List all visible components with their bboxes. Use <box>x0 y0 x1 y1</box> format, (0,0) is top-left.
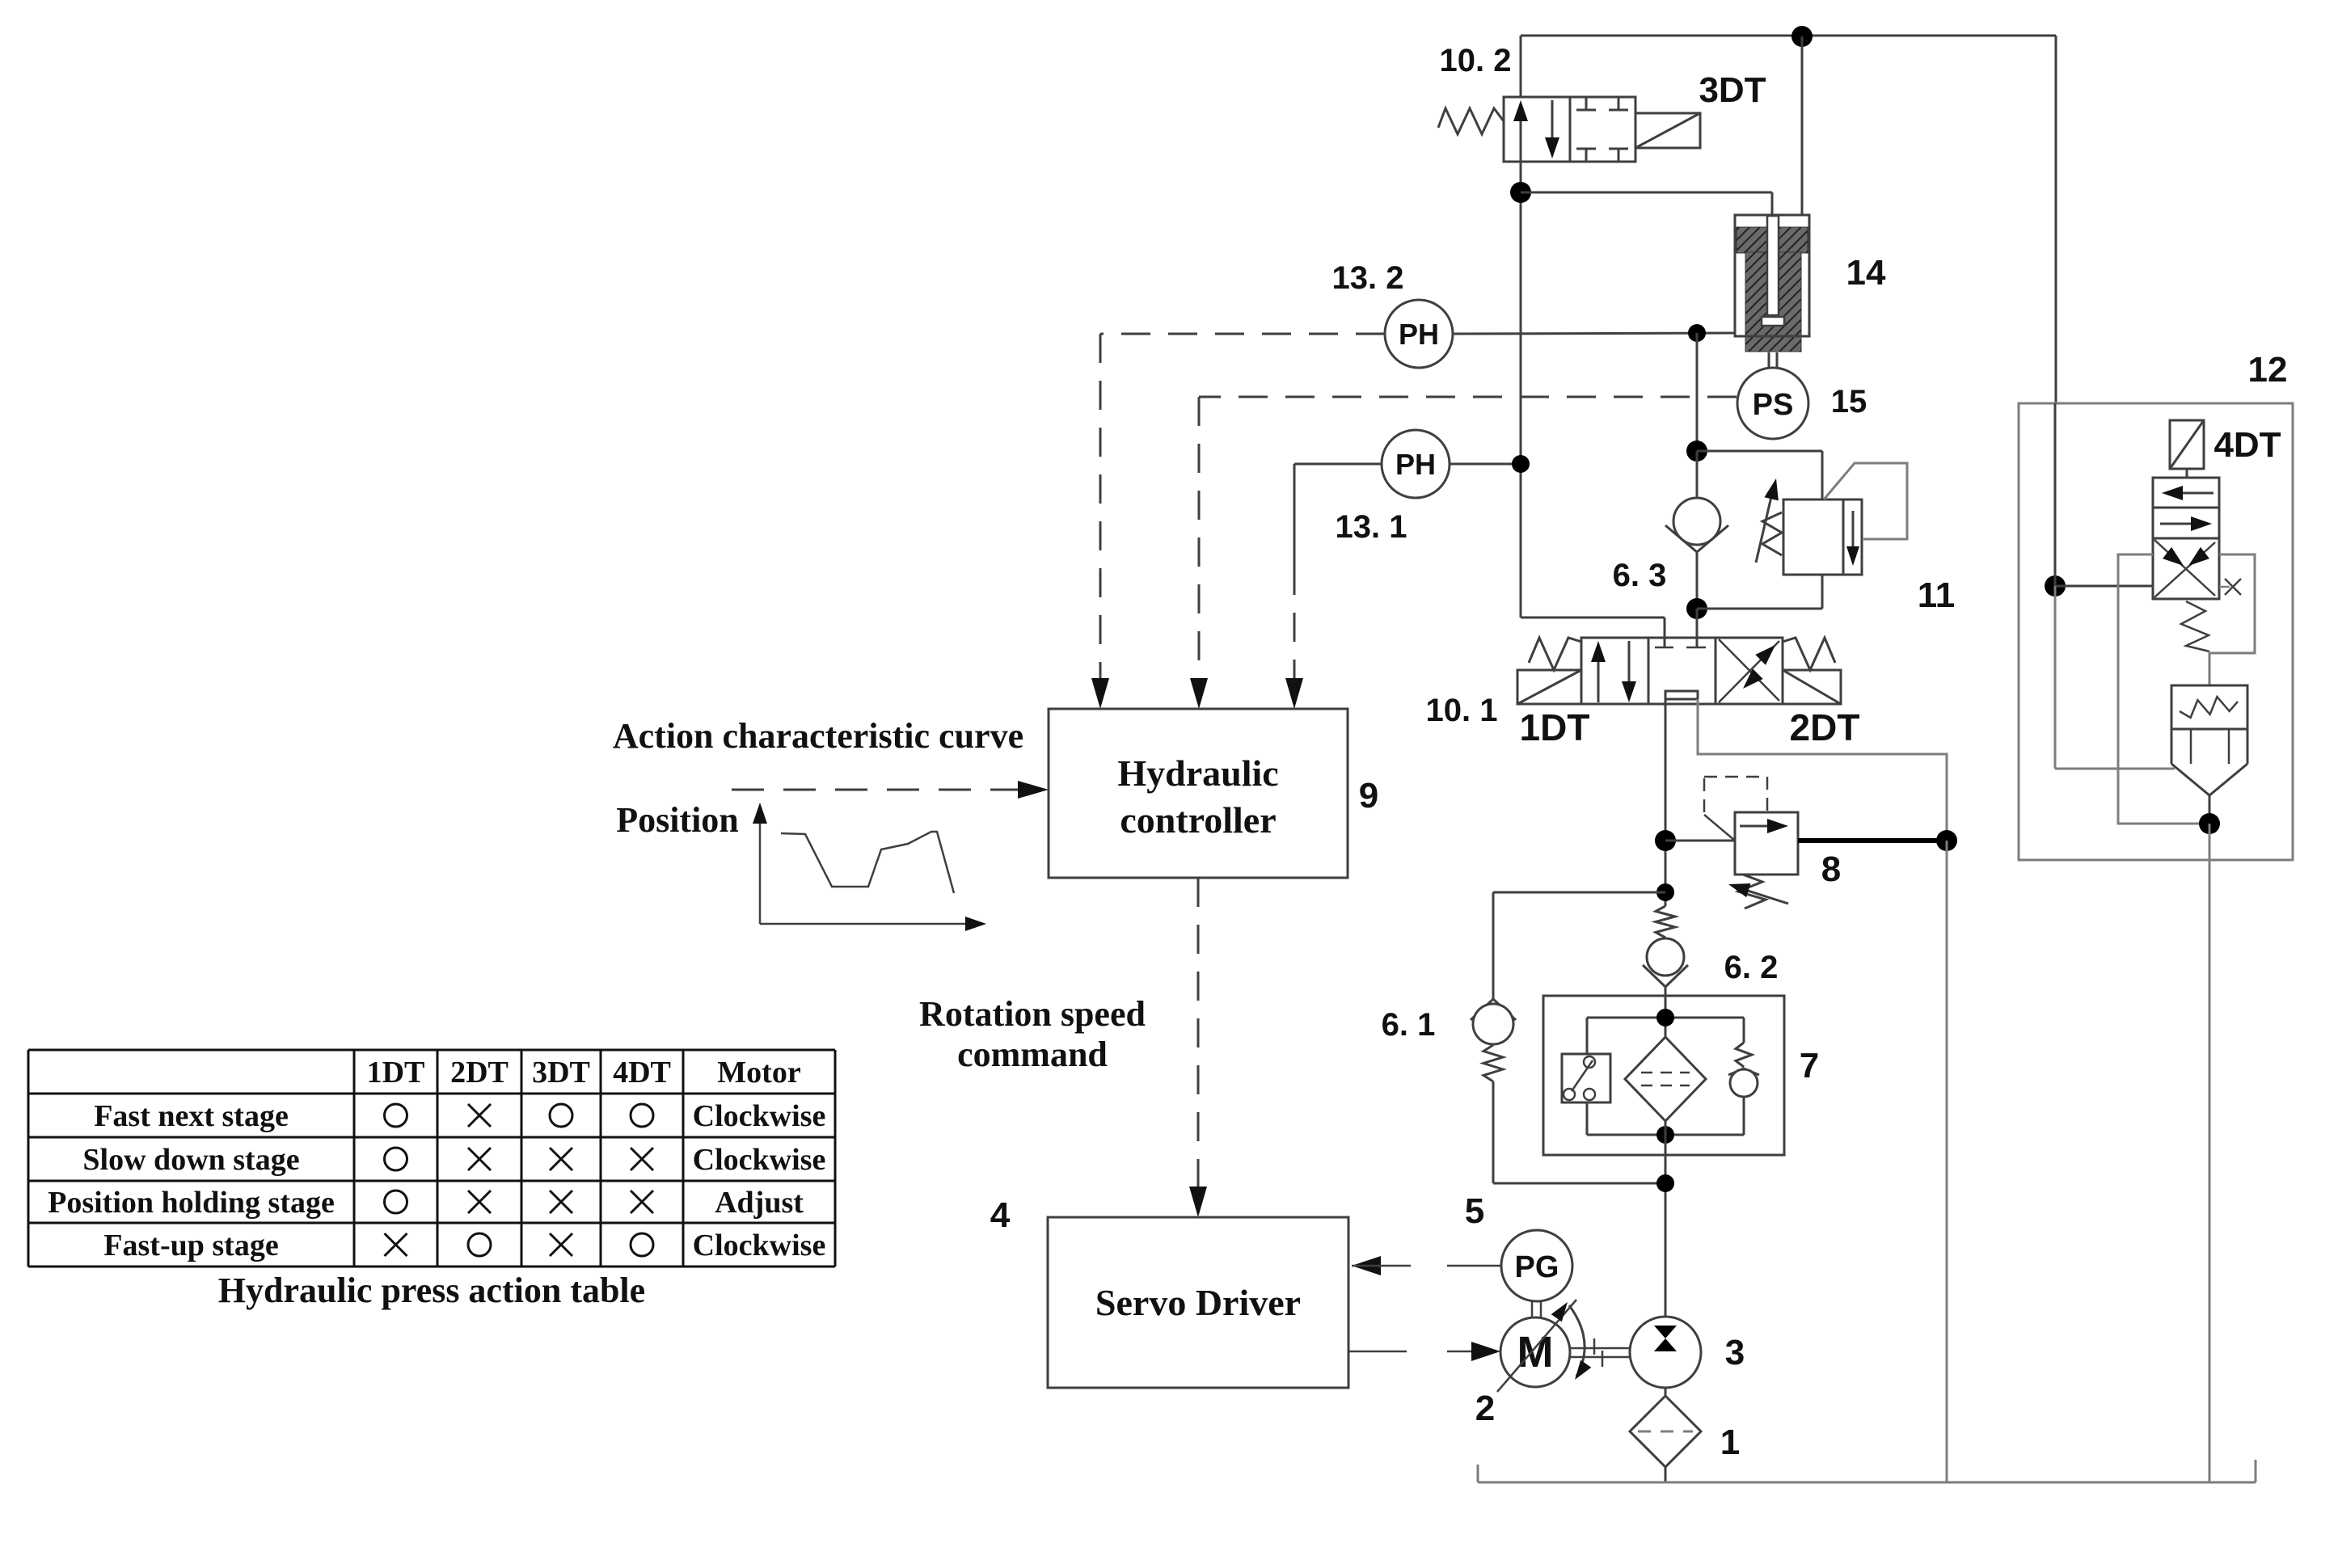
svg-text:command: command <box>957 1035 1108 1074</box>
node cartridge outlet <box>2199 813 2220 834</box>
valve 4DT body <box>2153 478 2219 508</box>
signal line PH13.2 to controller <box>1100 333 1385 335</box>
valve 10.1 left spring <box>1529 638 1581 670</box>
svg-text:3DT: 3DT <box>532 1056 590 1090</box>
signal curve to controller <box>732 789 1032 791</box>
wire to relief valve 11 top <box>1697 450 1822 453</box>
wire check 6.1 return <box>1492 1081 1495 1183</box>
signal rotation speed command <box>1197 878 1200 1198</box>
gauge PH 13.1 <box>1382 430 1450 498</box>
svg-text:PH: PH <box>1395 448 1436 481</box>
curve x-axis <box>760 923 977 925</box>
relief valve 8 adjust arrow <box>1735 887 1788 904</box>
wire filter to tank <box>1665 1467 1667 1482</box>
wire pilot drain <box>2054 586 2057 769</box>
svg-text:1DT: 1DT <box>1520 706 1590 748</box>
svg-text:10. 2: 10. 2 <box>1440 43 1512 78</box>
position curve <box>781 832 954 893</box>
motor M 2 <box>1500 1317 1570 1387</box>
node relief-8 tap <box>1655 830 1676 851</box>
wire P-line to valve 10.1 <box>1696 609 1699 638</box>
svg-text:Position holding stage: Position holding stage <box>48 1186 335 1220</box>
wire PH13.2 to cylinder line <box>1453 333 1735 334</box>
svg-text:6. 1: 6. 1 <box>1382 1007 1436 1043</box>
wire relief valve 11 bottom return <box>1821 575 1824 609</box>
block 12 enclosure <box>2019 403 2293 860</box>
servo driver 4 <box>1048 1217 1348 1388</box>
check valve 6.2 <box>1647 938 1684 976</box>
wire cartridge to tank <box>2209 824 2211 1482</box>
curve y-axis <box>759 808 762 924</box>
cylinder 14 <box>1735 215 1809 352</box>
svg-text:4DT: 4DT <box>613 1056 671 1090</box>
svg-text:4: 4 <box>990 1195 1011 1235</box>
valve 10.2 body <box>1504 97 1570 162</box>
valve 10.1 position-3 crossed arrows <box>1719 641 1779 702</box>
pilot valve crossed arrows <box>2154 542 2215 597</box>
svg-text:9: 9 <box>1359 776 1378 816</box>
check valve 6.3 <box>1696 451 1699 498</box>
svg-text:Slow down stage: Slow down stage <box>82 1143 299 1177</box>
filter element <box>1625 1037 1706 1121</box>
cartridge poppet <box>2171 685 2247 729</box>
svg-text:Fast-up stage: Fast-up stage <box>103 1229 278 1262</box>
encoder shaft <box>1531 1301 1534 1317</box>
relief valve 11 flow arrow <box>1852 511 1855 556</box>
pilot valve body <box>2153 538 2219 599</box>
node check 6.3 top <box>1686 440 1707 462</box>
wire junction to cylinder piston port <box>1801 36 1804 216</box>
svg-text:PG: PG <box>1515 1250 1559 1284</box>
svg-text:10. 1: 10. 1 <box>1426 693 1498 728</box>
svg-text:3DT: 3DT <box>1699 70 1766 110</box>
valve 4DT arrows <box>2168 492 2214 495</box>
valve 10.1 body <box>1581 638 1648 704</box>
shaft coupling <box>1570 1347 1630 1350</box>
svg-text:Servo Driver: Servo Driver <box>1095 1282 1301 1323</box>
node check 6.3 bottom <box>1686 598 1707 619</box>
wire tank drop line <box>1946 841 1948 1482</box>
svg-text:4DT: 4DT <box>2214 425 2281 465</box>
suction filter 1 <box>1630 1396 1701 1467</box>
wire A-line into valve 10.1 <box>1521 617 1665 619</box>
svg-text:Position: Position <box>616 800 739 840</box>
motor rotation arc <box>1569 1305 1585 1376</box>
svg-text:Rotation speed: Rotation speed <box>919 994 1146 1034</box>
check valve 6.2 spring <box>1656 906 1675 938</box>
filter unit inner top rail <box>1587 1017 1744 1019</box>
svg-text:2DT: 2DT <box>450 1056 509 1090</box>
valve 10.2 return spring <box>1438 108 1504 134</box>
wire branch to check 6.1 <box>1493 891 1665 894</box>
svg-text:Motor: Motor <box>717 1056 801 1090</box>
solenoid 3DT coil <box>1635 113 1700 148</box>
filter unit 7 enclosure <box>1543 996 1784 1155</box>
signal line PS to controller <box>1199 396 1737 398</box>
relief valve 11 spring <box>1762 512 1782 555</box>
wire pilot supply <box>2054 403 2057 586</box>
valve 10.1 position-1 arrows <box>1597 646 1600 702</box>
svg-text:8: 8 <box>1821 849 1841 889</box>
svg-text:PS: PS <box>1753 388 1794 422</box>
node PH13.1 junction <box>1512 455 1530 473</box>
pilot valve spring <box>2181 601 2209 651</box>
valve 10.2 flow arrows <box>1520 105 1522 162</box>
svg-text:controller: controller <box>1120 799 1276 841</box>
svg-text:Hydraulic press action table: Hydraulic press action table <box>218 1271 645 1310</box>
pressure switch PS <box>1737 368 1808 439</box>
svg-text:Adjust: Adjust <box>715 1186 804 1220</box>
wire A-line vertical <box>1520 162 1522 618</box>
pilot loop right <box>2209 554 2255 685</box>
node PH line junction <box>1688 324 1706 342</box>
relief valve 11 pilot loop <box>1824 463 1907 539</box>
valve 10.2 blocked ports <box>1585 97 1588 110</box>
solenoid 4DT coil <box>2170 420 2204 469</box>
svg-text:13. 1: 13. 1 <box>1336 509 1407 545</box>
node filter bottom <box>1656 1126 1674 1144</box>
tank line <box>1478 1482 2256 1484</box>
svg-text:Clockwise: Clockwise <box>693 1099 826 1133</box>
table cells <box>385 1104 407 1127</box>
relief valve 8 spring <box>1738 875 1766 908</box>
node valve 10.2 outlet <box>1510 182 1531 203</box>
table grid <box>28 1049 835 1052</box>
wire PH13.1 to main line <box>1450 463 1521 466</box>
wire cylinder to pressure switch <box>1768 352 1770 369</box>
check valve 6.1 spring <box>1483 1045 1503 1081</box>
svg-text:Clockwise: Clockwise <box>693 1143 826 1177</box>
valve 10.1 center position <box>1664 638 1666 647</box>
svg-text:1DT: 1DT <box>367 1056 425 1090</box>
svg-text:2DT: 2DT <box>1790 706 1860 748</box>
svg-text:1: 1 <box>1720 1423 1740 1462</box>
relief valve 11 adjust arrow <box>1756 490 1773 563</box>
svg-text:Fast next stage: Fast next stage <box>94 1099 289 1133</box>
relief valve 8 pilot dash <box>1703 777 1706 812</box>
svg-text:6. 3: 6. 3 <box>1613 558 1667 593</box>
filter unit inner bottom rail <box>1587 1134 1744 1136</box>
hydraulic controller 9 <box>1049 709 1348 878</box>
svg-text:M: M <box>1517 1328 1554 1376</box>
solenoid 1DT coil <box>1517 670 1581 704</box>
filter clog indicator <box>1586 1018 1589 1054</box>
encoder PG 5 <box>1501 1230 1572 1301</box>
wire relief 8 outlet thick <box>1798 838 1947 843</box>
svg-text:6. 2: 6. 2 <box>1724 950 1779 985</box>
check valve 6.1 <box>1471 999 1516 1020</box>
node check 6.1 tap <box>1656 883 1674 901</box>
filter bypass check <box>1743 1018 1745 1043</box>
wire T-line to tank <box>1698 699 1947 841</box>
pump 3 <box>1630 1317 1701 1388</box>
wire P-line valve to pump <box>1665 699 1667 906</box>
motor leader line <box>1497 1300 1576 1392</box>
svg-text:5: 5 <box>1465 1191 1484 1231</box>
svg-text:15: 15 <box>1831 384 1867 419</box>
wire to cylinder rod-side top port <box>1521 192 1772 194</box>
node tank header junction <box>1936 830 1957 851</box>
wire top supply line <box>1521 35 2056 37</box>
svg-text:Hydraulic: Hydraulic <box>1117 752 1278 794</box>
node pilot inlet <box>2045 575 2066 596</box>
pilot valve throttle x <box>2219 586 2230 588</box>
wire relief 8 inlet <box>1665 840 1735 842</box>
relief valve 8 body <box>1735 812 1798 875</box>
svg-text:Action characteristic curve: Action characteristic curve <box>613 716 1023 756</box>
svg-text:2: 2 <box>1475 1389 1495 1428</box>
relief valve 8 arrow <box>1740 825 1782 828</box>
gauge PH 13.2 <box>1385 300 1453 368</box>
svg-text:3: 3 <box>1725 1333 1745 1372</box>
signal line PH13.1 to controller <box>1294 463 1382 466</box>
svg-text:11: 11 <box>1918 575 1956 615</box>
svg-text:12: 12 <box>2248 350 2288 390</box>
wire into filter <box>1665 996 1667 1037</box>
pilot loop left <box>2118 554 2209 824</box>
wire pump to filter 1 <box>1665 1388 1667 1396</box>
arrow servo to motor <box>1348 1351 1407 1353</box>
node top junction <box>1791 26 1813 47</box>
svg-text:14: 14 <box>1846 253 1886 293</box>
svg-text:Clockwise: Clockwise <box>693 1229 826 1262</box>
arrow PG to servo <box>1352 1256 1381 1275</box>
wire filter to pump <box>1665 1121 1667 1135</box>
svg-text:7: 7 <box>1800 1046 1819 1085</box>
svg-text:PH: PH <box>1399 318 1439 351</box>
wire down to check valve branch <box>1696 333 1699 451</box>
solenoid 2DT coil <box>1783 670 1841 704</box>
valve 10.1 right spring <box>1783 638 1835 670</box>
node suction junction <box>1656 1174 1674 1192</box>
relief valve 11 body <box>1783 499 1862 575</box>
node filter top <box>1656 1009 1674 1026</box>
svg-text:13. 2: 13. 2 <box>1332 260 1404 296</box>
